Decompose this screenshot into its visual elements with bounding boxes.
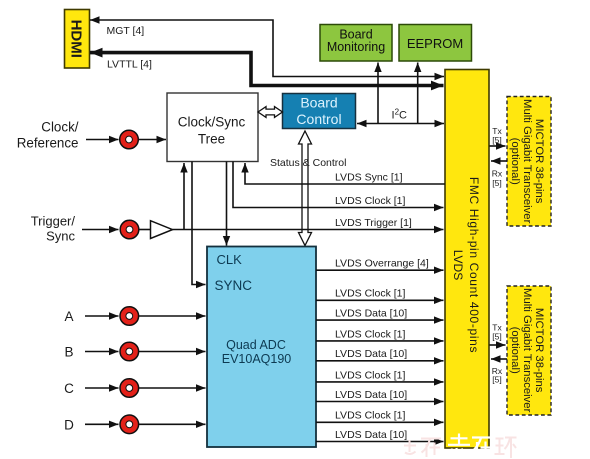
svg-text:LVDS Trigger [1]: LVDS Trigger [1] bbox=[335, 217, 412, 229]
svg-text:Board: Board bbox=[300, 95, 337, 111]
svg-text:Control: Control bbox=[296, 111, 341, 127]
svg-text:LVDS: LVDS bbox=[451, 250, 465, 280]
svg-text:EEPROM: EEPROM bbox=[407, 36, 463, 51]
svg-text:[5]: [5] bbox=[492, 178, 501, 188]
svg-text:Sync: Sync bbox=[46, 229, 75, 244]
svg-text:MGT [4]: MGT [4] bbox=[107, 25, 145, 37]
svg-text:Clock/: Clock/ bbox=[41, 120, 78, 135]
svg-text:I2C: I2C bbox=[392, 108, 408, 122]
svg-text:Quad ADC: Quad ADC bbox=[226, 338, 286, 352]
svg-text:Clock/Sync: Clock/Sync bbox=[178, 115, 246, 130]
svg-text:B: B bbox=[64, 345, 73, 360]
svg-text:SYNC: SYNC bbox=[215, 278, 253, 293]
svg-text:[5]: [5] bbox=[492, 332, 501, 342]
svg-text:[5]: [5] bbox=[492, 375, 501, 385]
svg-text:FMC High-pin Count 400-pins: FMC High-pin Count 400-pins bbox=[467, 177, 481, 353]
svg-text:Reference: Reference bbox=[17, 136, 79, 151]
svg-text:LVDS Overrange [4]: LVDS Overrange [4] bbox=[335, 258, 429, 270]
svg-text:Rx: Rx bbox=[492, 169, 503, 179]
svg-text:LVDS Data [10]: LVDS Data [10] bbox=[335, 308, 407, 320]
svg-text:HDMI: HDMI bbox=[68, 20, 85, 58]
svg-text:Trigger/: Trigger/ bbox=[31, 214, 76, 229]
svg-text:LVDS Data [10]: LVDS Data [10] bbox=[335, 348, 407, 360]
svg-text:[5]: [5] bbox=[492, 135, 501, 145]
svg-text:LVTTL [4]: LVTTL [4] bbox=[107, 59, 152, 71]
svg-text:Monitoring: Monitoring bbox=[327, 40, 385, 54]
svg-text:LVDS Clock [1]: LVDS Clock [1] bbox=[335, 328, 405, 340]
svg-text:A: A bbox=[64, 309, 73, 324]
svg-text:LVDS Clock [1]: LVDS Clock [1] bbox=[335, 410, 405, 422]
svg-text:CLK: CLK bbox=[217, 252, 243, 267]
svg-text:Tree: Tree bbox=[198, 132, 225, 147]
svg-text:LVDS Sync [1]: LVDS Sync [1] bbox=[335, 172, 403, 184]
svg-text:LVDS Clock [1]: LVDS Clock [1] bbox=[335, 195, 405, 207]
svg-text:LVDS Clock [1]: LVDS Clock [1] bbox=[335, 369, 405, 381]
svg-text:LVDS Clock [1]: LVDS Clock [1] bbox=[335, 288, 405, 300]
svg-text:D: D bbox=[64, 417, 74, 432]
svg-text:C: C bbox=[64, 381, 74, 396]
svg-text:Status & Control: Status & Control bbox=[270, 157, 346, 169]
svg-text:LVDS Data [10]: LVDS Data [10] bbox=[335, 429, 407, 441]
svg-text:LVDS Data [10]: LVDS Data [10] bbox=[335, 389, 407, 401]
svg-text:EV10AQ190: EV10AQ190 bbox=[222, 352, 292, 366]
